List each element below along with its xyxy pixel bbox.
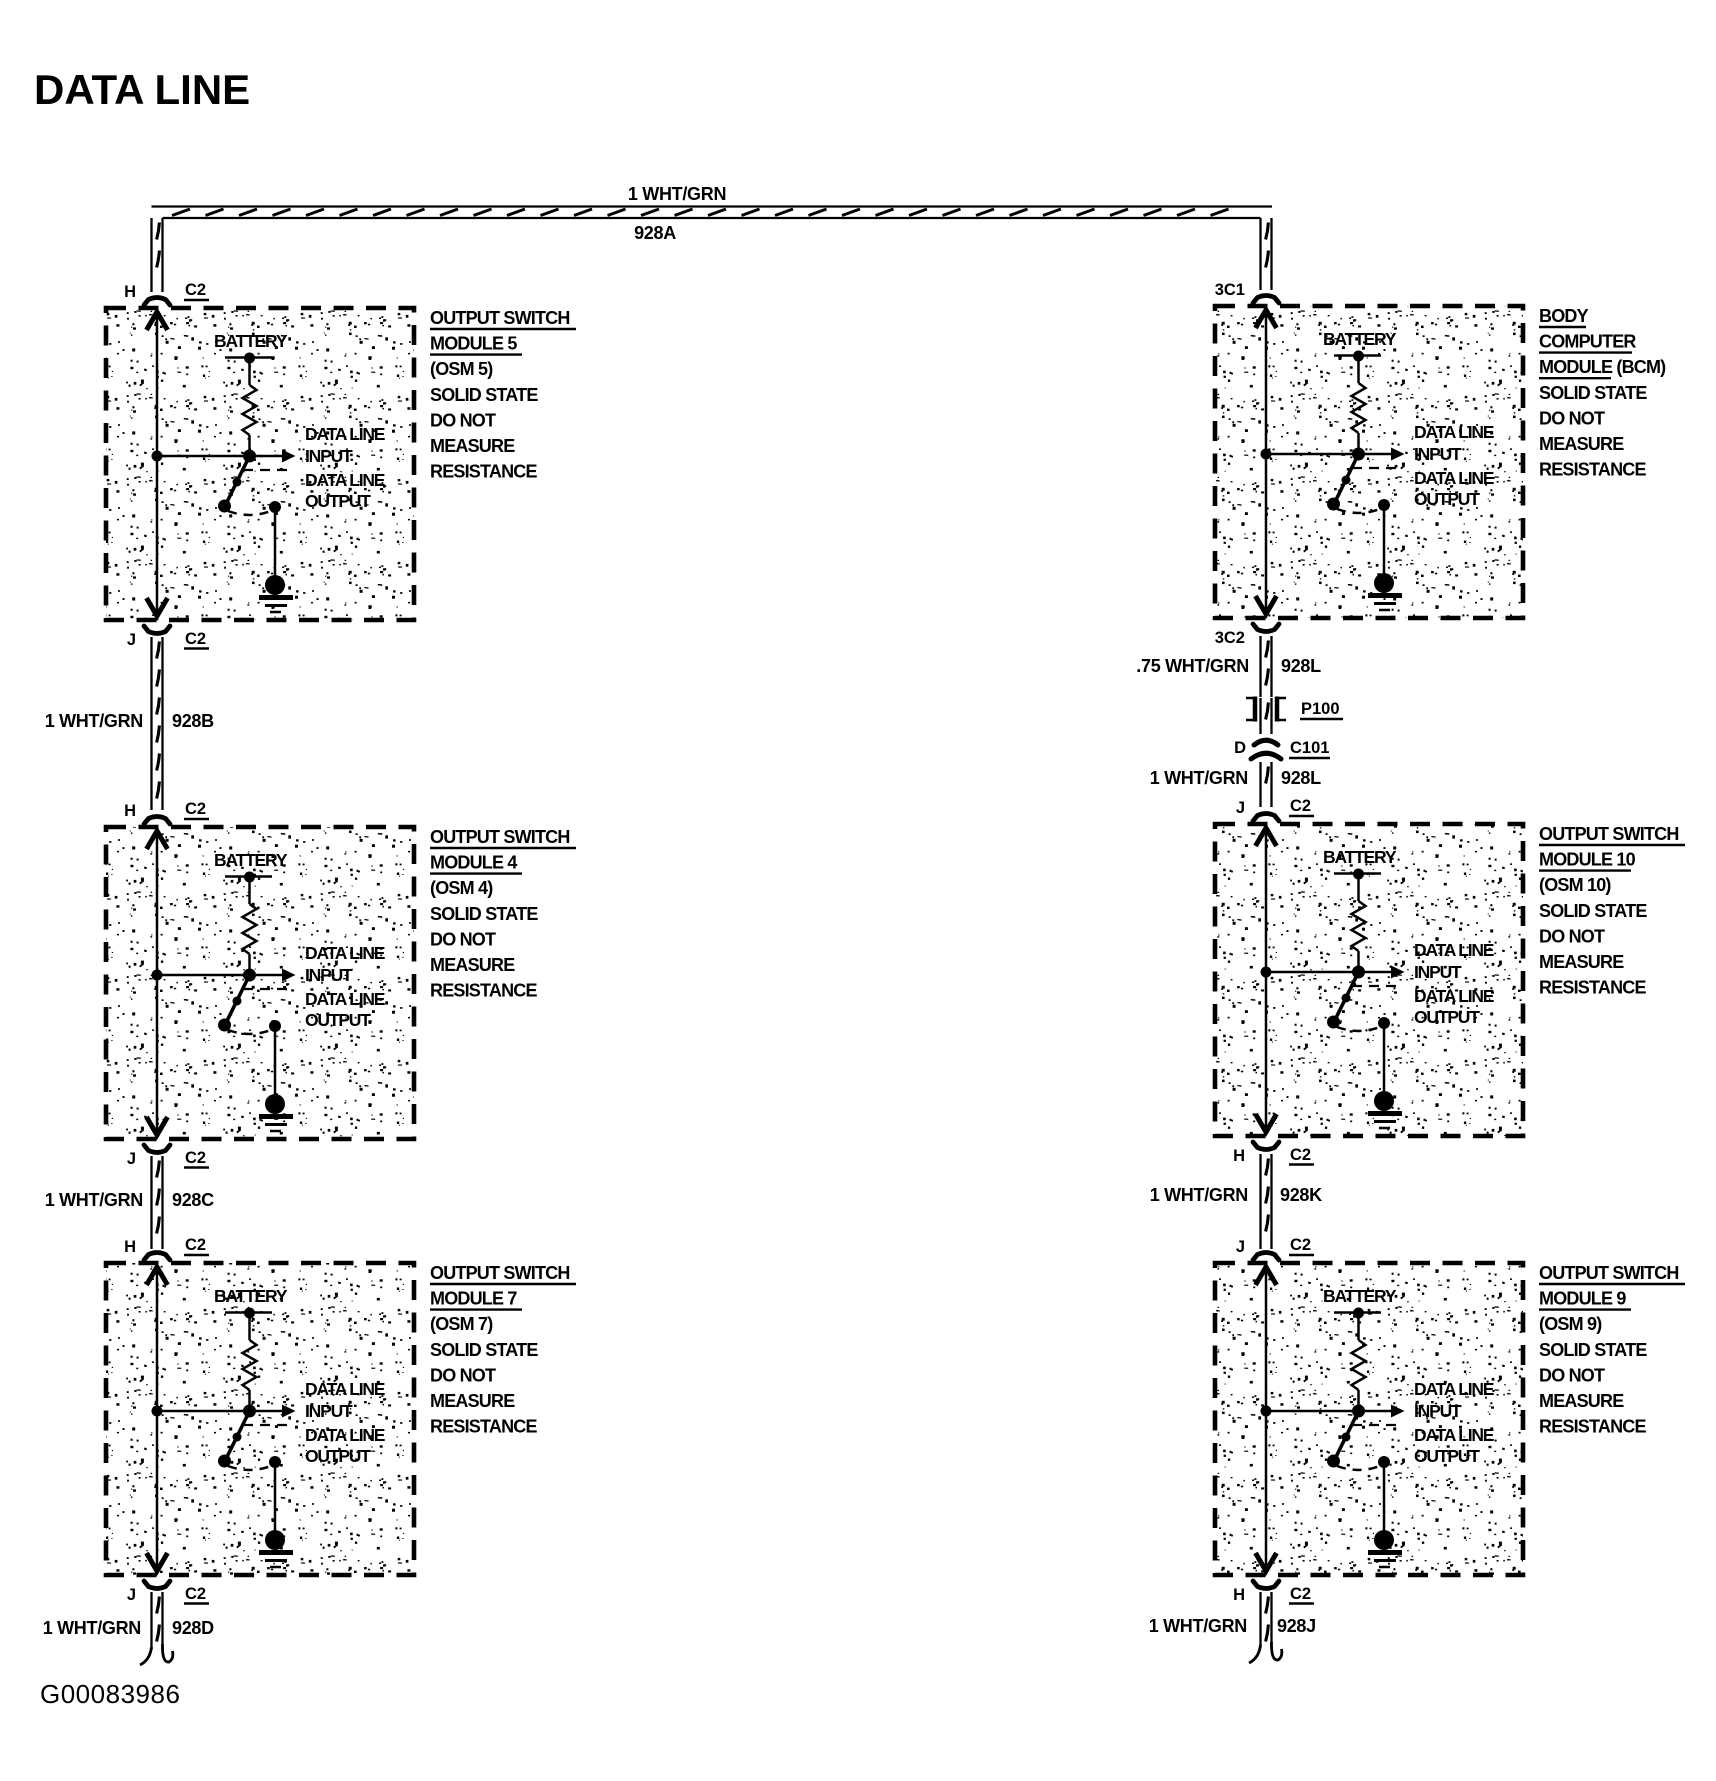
resistor (pull-up) in OSM4 [243,904,257,954]
wire junction to data bus in OSM7 [157,1410,250,1413]
wire 928A left drop (twisted pair) [152,218,163,292]
junction node at resistor in OSM7 [243,1405,256,1418]
label DATA LINE INPUT in BCM [1414,422,1494,464]
svg-text:1 WHT/GRN: 1 WHT/GRN [43,1618,141,1638]
junction node on bus in OSM7 [152,1406,163,1417]
svg-text:MODULE 4: MODULE 4 [430,853,517,873]
svg-text:OUTPUT SWITCH: OUTPUT SWITCH [430,308,570,328]
wire 928J frayed end [1249,1642,1282,1663]
switch mid contact dot in BCM [1342,476,1351,485]
wire 928A top horizontal twisted pair [152,207,1273,219]
svg-text:SOLID STATE: SOLID STATE [430,385,538,405]
wire junction to data bus in OSM10 [1266,971,1359,974]
svg-text:J: J [127,631,136,649]
svg-text:BATTERY: BATTERY [214,331,288,351]
svg-text:P100: P100 [1301,700,1340,718]
svg-text:.75 WHT/GRN: .75 WHT/GRN [1136,656,1249,676]
wire resistor to junction in OSM4 [248,954,251,975]
arrowhead up at OSM5 top pin [147,312,168,330]
module OSM10 dashed box [1215,824,1523,1136]
junction node at resistor in OSM9 [1352,1405,1365,1418]
svg-text:BODY: BODY [1539,306,1589,326]
svg-text:DO NOT: DO NOT [430,1365,496,1385]
svg-text:BATTERY: BATTERY [1323,329,1397,349]
junction node on bus in OSM5 [152,451,163,462]
svg-text:DO NOT: DO NOT [1539,1365,1605,1385]
svg-text:(OSM 9): (OSM 9) [1539,1314,1602,1334]
svg-text:MEASURE: MEASURE [1539,1391,1624,1411]
wire 928L upper (.75) (twisted pair) [1261,636,1272,697]
svg-text:RESISTANCE: RESISTANCE [1539,978,1646,998]
svg-text:MODULE 9: MODULE 9 [1539,1289,1626,1309]
svg-text:H: H [1233,1586,1245,1604]
junction node on bus in BCM [1261,449,1272,460]
arrowhead down at OSM10 bottom pin [1256,1114,1277,1132]
wire battery to resistor in OSM4 [248,877,251,904]
wire: OSM7 internal data bus vertical line [156,1268,159,1570]
wire: OSM4 internal data bus vertical line [156,832,159,1134]
svg-text:J: J [1236,799,1245,817]
wire switch to ground in OSM9 [1383,1462,1386,1532]
svg-text:DATA LINE: DATA LINE [1414,468,1494,488]
svg-text:C2: C2 [185,800,206,818]
svg-text:DO NOT: DO NOT [430,929,496,949]
label DATA LINE INPUT in OSM9 [1414,1379,1494,1421]
junction node at resistor in BCM [1352,448,1365,461]
svg-text:H: H [124,802,136,820]
dashed throw arc of switch in BCM [1337,509,1380,513]
dashed pointer to DATA LINE OUTPUT label in OSM10 [1352,985,1403,987]
svg-text:928B: 928B [172,711,214,731]
junction node on bus in OSM9 [1261,1406,1272,1417]
ground symbol in OSM5 [259,575,293,612]
label DATA LINE OUTPUT in OSM7 [305,1425,385,1466]
wire 928D frayed end [140,1644,173,1665]
connector C101 cavity D [1251,740,1281,759]
svg-text:1 WHT/GRN: 1 WHT/GRN [1149,1616,1247,1636]
svg-text:INPUT: INPUT [1414,962,1462,982]
label DATA LINE OUTPUT in OSM5 [305,470,385,511]
wire battery to resistor in OSM7 [248,1313,251,1340]
data line input arrow in BCM [1359,448,1405,461]
wire battery to resistor in OSM5 [248,358,251,385]
label DATA LINE OUTPUT in OSM10 [1414,986,1494,1027]
connector J C2 at OSM4 bottom [127,1145,209,1168]
svg-text:C101: C101 [1290,739,1329,757]
svg-text:DO NOT: DO NOT [430,410,496,430]
svg-text:J: J [127,1586,136,1604]
svg-text:OUTPUT SWITCH: OUTPUT SWITCH [1539,824,1679,844]
svg-text:DATA LINE: DATA LINE [305,424,385,444]
connector J C2 at OSM5 bottom [127,626,209,649]
connector H C2 at OSM4 top [124,800,209,824]
arrowhead up at OSM9 top pin [1256,1267,1277,1285]
switch pole dot in BCM [1327,498,1340,511]
svg-text:C2: C2 [185,1585,206,1603]
dashed throw arc of switch in OSM7 [228,1466,271,1470]
wire 928C (twisted pair) [152,1156,163,1249]
wire resistor to junction in OSM9 [1357,1390,1360,1411]
arrowhead down at OSM9 bottom pin [1256,1553,1277,1571]
arrowhead up at OSM7 top pin [147,1267,168,1285]
dashed pointer to DATA LINE OUTPUT label in OSM9 [1352,1424,1403,1426]
wire switch to ground in OSM10 [1383,1023,1386,1093]
label DATA LINE INPUT in OSM10 [1414,940,1494,982]
svg-text:DATA LINE: DATA LINE [34,66,250,113]
svg-text:MEASURE: MEASURE [1539,952,1624,972]
wire: OSM10 internal data bus vertical line [1265,829,1268,1131]
svg-text:DATA LINE: DATA LINE [305,470,385,490]
svg-text:DATA LINE: DATA LINE [1414,940,1494,960]
module BCM dashed box [1215,306,1523,618]
svg-text:MODULE 7: MODULE 7 [430,1289,517,1309]
arrowhead down at OSM4 bottom pin [147,1117,168,1135]
svg-text:H: H [1233,1147,1245,1165]
svg-text:928L: 928L [1281,768,1321,788]
svg-text:DATA LINE: DATA LINE [305,1425,385,1445]
svg-text:MODULE (BCM): MODULE (BCM) [1539,357,1666,377]
wire: OSM5 internal data bus vertical line [156,313,159,615]
wire 928A right drop (twisted pair) [1261,218,1272,290]
battery B+ terminal symbol in OSM10 [1334,869,1381,880]
dashed pointer to DATA LINE OUTPUT label in OSM5 [243,469,294,471]
svg-text:J: J [127,1150,136,1168]
battery B+ terminal symbol in BCM [1334,351,1381,362]
resistor (pull-up) in OSM5 [243,385,257,435]
wire battery to resistor in OSM9 [1357,1313,1360,1340]
wire junction to data bus in BCM [1266,453,1359,456]
svg-text:OUTPUT: OUTPUT [305,1010,371,1030]
svg-text:DO NOT: DO NOT [1539,926,1605,946]
dashed pointer to DATA LINE OUTPUT label in OSM4 [243,988,294,990]
svg-text:(OSM 4): (OSM 4) [430,878,493,898]
wire resistor to junction in OSM7 [248,1390,251,1411]
svg-text:SOLID STATE: SOLID STATE [430,904,538,924]
arrowhead down at OSM5 bottom pin [147,598,168,616]
svg-text:1 WHT/GRN: 1 WHT/GRN [1150,768,1248,788]
label DATA LINE INPUT in OSM4 [305,943,385,985]
label DATA LINE OUTPUT in OSM4 [305,989,385,1030]
svg-text:1 WHT/GRN: 1 WHT/GRN [628,184,726,204]
ground symbol in BCM [1368,573,1402,610]
svg-text:3C2: 3C2 [1215,629,1245,647]
data line input arrow in OSM7 [250,1405,296,1418]
connector H C2 at OSM9 bottom [1233,1581,1314,1604]
svg-text:(OSM 10): (OSM 10) [1539,875,1611,895]
resistor (pull-up) in OSM9 [1352,1340,1366,1390]
svg-text:H: H [124,1238,136,1256]
svg-text:D: D [1234,739,1246,757]
wire resistor to junction in OSM10 [1357,951,1360,972]
svg-text:RESISTANCE: RESISTANCE [1539,1417,1646,1437]
svg-text:MEASURE: MEASURE [430,436,515,456]
dashed throw arc of switch in OSM10 [1337,1027,1380,1031]
label DATA LINE INPUT in OSM7 [305,1379,385,1421]
switch output contact dot in BCM [1378,499,1390,511]
battery B+ terminal symbol in OSM9 [1334,1308,1381,1319]
wire junction to data bus in OSM9 [1266,1410,1359,1413]
description text for OSM7 [430,1263,576,1437]
connector H C2 at OSM10 bottom [1233,1142,1314,1165]
svg-text:RESISTANCE: RESISTANCE [430,1417,537,1437]
battery B+ terminal symbol in OSM7 [225,1308,272,1319]
connector 3C2 at BCM bottom [1215,624,1279,647]
switch output contact dot in OSM4 [269,1020,281,1032]
svg-text:(OSM 5): (OSM 5) [430,359,493,379]
svg-text:C2: C2 [1290,1585,1311,1603]
svg-text:928D: 928D [172,1618,214,1638]
switch arm in OSM4 [225,975,250,1025]
svg-text:COMPUTER: COMPUTER [1539,332,1636,352]
svg-text:C2: C2 [1290,797,1311,815]
svg-text:C2: C2 [1290,1146,1311,1164]
svg-text:BATTERY: BATTERY [214,1286,288,1306]
svg-text:OUTPUT: OUTPUT [1414,489,1480,509]
svg-text:MEASURE: MEASURE [1539,434,1624,454]
switch pole dot in OSM7 [218,1455,231,1468]
wire switch to ground in OSM7 [274,1462,277,1532]
wire 928J (twisted pair) [1261,1592,1272,1648]
svg-text:J: J [1236,1238,1245,1256]
resistor (pull-up) in OSM10 [1352,901,1366,951]
junction node at resistor in OSM5 [243,450,256,463]
svg-text:DATA LINE: DATA LINE [1414,1425,1494,1445]
svg-text:DATA LINE: DATA LINE [305,1379,385,1399]
switch mid contact dot in OSM9 [1342,1433,1351,1442]
connector 3C1 at BCM top [1215,281,1279,303]
svg-text:SOLID STATE: SOLID STATE [1539,383,1647,403]
svg-text:OUTPUT SWITCH: OUTPUT SWITCH [430,1263,570,1283]
dashed throw arc of switch in OSM9 [1337,1466,1380,1470]
svg-text:C2: C2 [1290,1236,1311,1254]
connector J C2 at OSM7 bottom [127,1581,209,1604]
resistor (pull-up) in BCM [1352,383,1366,433]
svg-text:BATTERY: BATTERY [214,850,288,870]
svg-text:OUTPUT SWITCH: OUTPUT SWITCH [1539,1263,1679,1283]
ground symbol in OSM9 [1368,1530,1402,1567]
switch output contact dot in OSM10 [1378,1017,1390,1029]
arrowhead up at BCM top pin [1256,310,1277,328]
description text for OSM5 [430,308,576,482]
wire switch to ground in OSM4 [274,1026,277,1096]
switch pole dot in OSM10 [1327,1016,1340,1029]
svg-text:DATA LINE: DATA LINE [305,943,385,963]
svg-text:3C1: 3C1 [1215,281,1245,299]
svg-text:DATA LINE: DATA LINE [1414,422,1494,442]
svg-text:1 WHT/GRN: 1 WHT/GRN [45,711,143,731]
svg-text:RESISTANCE: RESISTANCE [430,462,537,482]
junction node on bus in OSM10 [1261,967,1272,978]
svg-text:OUTPUT: OUTPUT [1414,1007,1480,1027]
module OSM5 dashed box [106,308,414,620]
svg-text:DATA LINE: DATA LINE [1414,1379,1494,1399]
switch pole dot in OSM5 [218,500,231,513]
switch arm in OSM7 [225,1411,250,1461]
switch pole dot in OSM9 [1327,1455,1340,1468]
description text for OSM9 [1539,1263,1685,1437]
data line input arrow in OSM9 [1359,1405,1405,1418]
dashed throw arc of switch in OSM5 [228,511,271,515]
svg-text:MODULE 5: MODULE 5 [430,334,517,354]
switch arm in BCM [1334,454,1359,504]
svg-text:SOLID STATE: SOLID STATE [430,1340,538,1360]
wire battery to resistor in BCM [1357,356,1360,383]
switch pole dot in OSM4 [218,1019,231,1032]
svg-text:INPUT: INPUT [305,446,353,466]
svg-text:MODULE 10: MODULE 10 [1539,850,1636,870]
svg-text:G00083986: G00083986 [40,1679,180,1709]
wire: OSM9 internal data bus vertical line [1265,1268,1268,1570]
svg-text:MEASURE: MEASURE [430,955,515,975]
switch output contact dot in OSM7 [269,1456,281,1468]
svg-text:DO NOT: DO NOT [1539,408,1605,428]
wire resistor to junction in OSM5 [248,435,251,456]
wire resistor to junction in BCM [1357,433,1360,454]
wire switch to ground in OSM5 [274,507,277,577]
switch output contact dot in OSM9 [1378,1456,1390,1468]
svg-text:INPUT: INPUT [305,1401,353,1421]
svg-text:1 WHT/GRN: 1 WHT/GRN [1150,1185,1248,1205]
wire switch to ground in BCM [1383,505,1386,575]
svg-text:INPUT: INPUT [1414,1401,1462,1421]
switch mid contact dot in OSM4 [233,997,242,1006]
svg-text:C2: C2 [185,630,206,648]
data line input arrow in OSM10 [1359,966,1405,979]
svg-text:C2: C2 [185,1149,206,1167]
label DATA LINE INPUT in OSM5 [305,424,385,466]
arrowhead down at BCM bottom pin [1256,596,1277,614]
connector J C2 at OSM10 top [1236,797,1314,821]
svg-text:OUTPUT: OUTPUT [305,1446,371,1466]
svg-text:C2: C2 [185,281,206,299]
arrowhead down at OSM7 bottom pin [147,1553,168,1571]
connector H C2 at OSM5 top [124,281,209,305]
label DATA LINE OUTPUT in OSM9 [1414,1425,1494,1466]
ground symbol in OSM7 [259,1530,293,1567]
description text for OSM4 [430,827,576,1001]
arrowhead up at OSM10 top pin [1256,828,1277,846]
svg-text:BATTERY: BATTERY [1323,847,1397,867]
svg-text:DATA LINE: DATA LINE [305,989,385,1009]
connector P100 pass-through [1246,697,1286,722]
wire 928L lower (1 ga) (twisted pair) [1261,762,1272,807]
switch arm in OSM5 [225,456,250,506]
switch mid contact dot in OSM5 [233,478,242,487]
arrowhead up at OSM4 top pin [147,831,168,849]
svg-text:C2: C2 [185,1236,206,1254]
svg-text:INPUT: INPUT [305,965,353,985]
description text for OSM10 [1539,824,1685,998]
svg-text:OUTPUT SWITCH: OUTPUT SWITCH [430,827,570,847]
description text for BCM [1539,306,1666,480]
dashed pointer to DATA LINE OUTPUT label in BCM [1352,467,1403,469]
svg-text:H: H [124,283,136,301]
svg-text:928K: 928K [1280,1185,1322,1205]
battery B+ terminal symbol in OSM5 [225,353,272,364]
svg-text:928C: 928C [172,1190,214,1210]
wire junction to data bus in OSM4 [157,974,250,977]
wire 928B (twisted pair) [152,637,163,810]
data line input arrow in OSM4 [250,969,296,982]
svg-text:DATA LINE: DATA LINE [1414,986,1494,1006]
switch output contact dot in OSM5 [269,501,281,513]
module OSM9 dashed box [1215,1263,1523,1575]
module OSM7 dashed box [106,1263,414,1575]
junction node on bus in OSM4 [152,970,163,981]
svg-text:928L: 928L [1281,656,1321,676]
svg-text:928A: 928A [634,223,676,243]
switch mid contact dot in OSM10 [1342,994,1351,1003]
switch mid contact dot in OSM7 [233,1433,242,1442]
resistor (pull-up) in OSM7 [243,1340,257,1390]
connector J C2 at OSM9 top [1236,1236,1314,1260]
junction node at resistor in OSM10 [1352,966,1365,979]
svg-text:OUTPUT: OUTPUT [1414,1446,1480,1466]
wire 928L through P100 (twisted pair) [1261,698,1272,734]
dashed throw arc of switch in OSM4 [228,1030,271,1034]
svg-text:1 WHT/GRN: 1 WHT/GRN [45,1190,143,1210]
junction node at resistor in OSM4 [243,969,256,982]
wire 928D (twisted pair) [152,1592,163,1650]
wire junction to data bus in OSM5 [157,455,250,458]
wire: BCM internal data bus vertical line [1265,311,1268,613]
switch arm in OSM10 [1334,972,1359,1022]
connector H C2 at OSM7 top [124,1236,209,1260]
svg-text:(OSM 7): (OSM 7) [430,1314,493,1334]
battery B+ terminal symbol in OSM4 [225,872,272,883]
svg-text:SOLID STATE: SOLID STATE [1539,1340,1647,1360]
svg-text:RESISTANCE: RESISTANCE [430,981,537,1001]
wire battery to resistor in OSM10 [1357,874,1360,901]
svg-text:MEASURE: MEASURE [430,1391,515,1411]
svg-text:OUTPUT: OUTPUT [305,491,371,511]
data line input arrow in OSM5 [250,450,296,463]
svg-text:BATTERY: BATTERY [1323,1286,1397,1306]
svg-text:RESISTANCE: RESISTANCE [1539,460,1646,480]
svg-text:INPUT: INPUT [1414,444,1462,464]
dashed pointer to DATA LINE OUTPUT label in OSM7 [243,1424,294,1426]
svg-text:928J: 928J [1277,1616,1316,1636]
ground symbol in OSM10 [1368,1091,1402,1128]
switch arm in OSM9 [1334,1411,1359,1461]
wire 928K (twisted pair) [1261,1154,1272,1249]
module OSM4 dashed box [106,827,414,1139]
label DATA LINE OUTPUT in BCM [1414,468,1494,509]
ground symbol in OSM4 [259,1094,293,1131]
svg-text:SOLID STATE: SOLID STATE [1539,901,1647,921]
